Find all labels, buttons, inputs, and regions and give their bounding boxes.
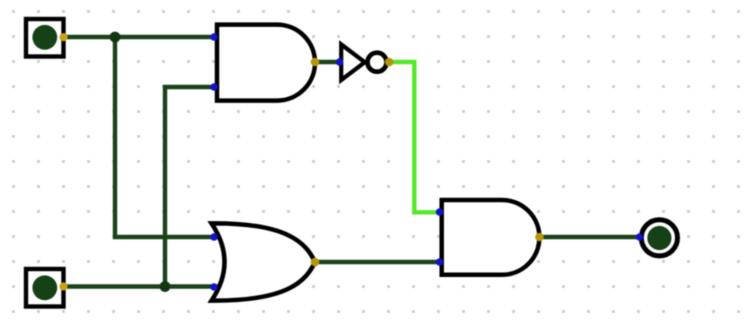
NOT U2 input port dot	[336, 58, 343, 65]
AND gate U1 (top)	[217, 25, 315, 101]
wire (high): NOT output down to AND2 top input	[389, 62, 442, 212]
wire net A: junction down and across to OR gate top input	[115, 37, 218, 237]
AND U4 output port dot	[535, 233, 544, 242]
wire net B: junction up and across to AND gate bottom input	[165, 87, 216, 287]
wire: AND1 output to NOT input	[315, 60, 340, 64]
wire net A: input 1 to AND gate top input	[64, 35, 217, 39]
wire net B: input 2 to OR gate bottom input	[64, 284, 219, 288]
input pin IN2	[26, 269, 68, 307]
OR gate U3 (bottom)	[212, 223, 316, 300]
OR U3 output port dot	[311, 258, 320, 267]
OR U3 input port dots	[210, 233, 217, 240]
output pin port dot	[636, 233, 643, 240]
AND U1 input port dots	[210, 33, 217, 40]
output pin OUT	[641, 220, 677, 256]
NOT gate U2	[341, 44, 386, 80]
input pin IN1	[26, 19, 68, 57]
junction node B	[160, 281, 171, 292]
wire: OR output to AND2 bottom input	[315, 260, 442, 264]
AND gate U4 (right)	[442, 200, 540, 275]
AND U4 input port dots	[436, 208, 443, 215]
NOT U2 output port dot	[385, 58, 394, 67]
junction node A	[110, 32, 121, 43]
wire: AND2 output to output pin	[540, 235, 640, 239]
AND U1 output port dot	[311, 58, 320, 67]
